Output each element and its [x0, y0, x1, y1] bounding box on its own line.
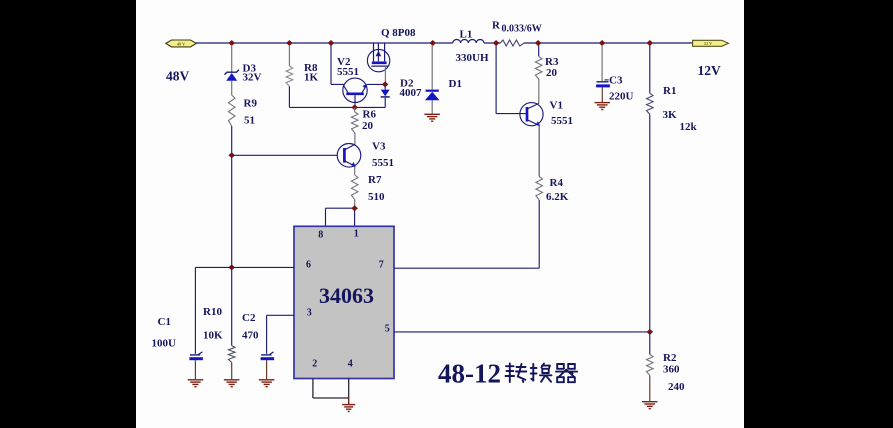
title glyph 换	[532, 364, 534, 381]
transistor V1 5551	[520, 103, 543, 126]
ground under pin4	[342, 404, 355, 406]
svg-text:C2: C2	[242, 312, 256, 324]
svg-text:1: 1	[354, 229, 359, 240]
resistor R9	[228, 95, 235, 126]
wire top rail R to 12V terminal	[524, 42, 693, 44]
wire V2 emitter to gate node	[367, 83, 386, 85]
svg-text:D1: D1	[449, 78, 462, 90]
node V3 base tap	[228, 152, 235, 158]
svg-text:C3: C3	[609, 75, 623, 87]
svg-text:1K: 1K	[304, 72, 319, 84]
svg-text:5551: 5551	[337, 66, 359, 78]
svg-text:12k: 12k	[680, 121, 698, 133]
wire rail to V2 collector	[330, 45, 332, 84]
wire R-R3 node down	[538, 45, 540, 56]
mosfet Q 8P08	[367, 49, 389, 71]
capacitor C1	[190, 354, 200, 356]
svg-text:R9: R9	[244, 98, 258, 110]
svg-text:20: 20	[546, 67, 558, 79]
svg-text:R1: R1	[663, 85, 676, 97]
svg-text:R4: R4	[550, 177, 564, 189]
svg-text:R10: R10	[203, 306, 222, 318]
node R8 branch	[286, 40, 293, 46]
svg-text:10K: 10K	[203, 330, 223, 342]
resistor R 0.033/6W	[500, 40, 524, 46]
svg-text:8: 8	[318, 230, 323, 241]
node mosfet gate / D2	[382, 81, 389, 87]
transistor V2 5551	[343, 78, 367, 102]
svg-text:12 V: 12 V	[704, 41, 712, 46]
svg-text:330UH: 330UH	[456, 52, 489, 64]
svg-text:7: 7	[379, 260, 384, 271]
wire R4 to pin7	[538, 200, 540, 268]
svg-text:3K: 3K	[663, 109, 678, 121]
svg-text:12V: 12V	[698, 63, 722, 78]
node L1-R / V1 base	[493, 40, 500, 46]
wire D3 to R9	[231, 81, 233, 95]
svg-text:48-12: 48-12	[438, 359, 501, 389]
wire pin5 to R2 node	[394, 331, 650, 333]
wire node to C1 corner	[195, 266, 231, 268]
transistor V3 5551	[337, 144, 361, 168]
wire rail to D3 anode	[231, 45, 233, 72]
wire R10 to ground	[231, 362, 233, 379]
svg-text:C1: C1	[158, 316, 171, 328]
capacitor C3	[597, 81, 609, 83]
wire R9 down to pin6 node	[231, 126, 233, 267]
resistor R6	[351, 112, 358, 133]
svg-text:4007: 4007	[400, 87, 423, 99]
wire D1 to ground	[431, 100, 433, 114]
svg-text:4: 4	[348, 359, 353, 370]
title glyph 转	[506, 365, 514, 367]
ground under R10	[224, 379, 240, 381]
resistor R1	[647, 93, 654, 114]
svg-text:V3: V3	[372, 141, 386, 153]
svg-text:5: 5	[385, 324, 390, 335]
wire C3 to ground	[601, 87, 603, 102]
resistor R7	[351, 175, 358, 200]
wire L1-R node to V1 base	[495, 45, 497, 114]
capacitor C2	[261, 354, 271, 356]
node R7 / pin1 / pin8	[351, 205, 358, 211]
ground under C2	[259, 379, 275, 381]
wire rail to D1	[431, 45, 433, 90]
wire R7 to pin1 node	[354, 200, 356, 209]
svg-text:32V: 32V	[243, 72, 262, 84]
wire R8 bottom to V2 emitter node	[288, 86, 290, 107]
svg-text:48V: 48V	[166, 69, 190, 84]
power terminal 48V flag	[166, 40, 197, 47]
wire top rail L1 to R sense resistor	[484, 42, 500, 44]
wire V3 emitter to R7	[354, 167, 356, 176]
node V2 base junction	[351, 104, 358, 110]
svg-text:2: 2	[312, 359, 317, 370]
wire R3 to V1 collector	[538, 79, 540, 103]
svg-text:100U: 100U	[152, 338, 177, 350]
wire R2 to ground	[649, 375, 651, 401]
node D1 branch	[429, 40, 436, 46]
wire V3 base	[232, 154, 338, 156]
power terminal 12V flag	[693, 40, 729, 46]
wire V1 emitter to R4	[538, 126, 540, 177]
IC U1 34063 body	[294, 226, 394, 378]
diode D1	[426, 90, 439, 92]
svg-text:Q 8P08: Q 8P08	[381, 27, 416, 39]
svg-text:L1: L1	[460, 29, 473, 41]
white schematic canvas	[136, 0, 744, 428]
svg-text:R: R	[492, 20, 501, 32]
node R-R3	[535, 40, 542, 46]
svg-text:5551: 5551	[551, 115, 573, 127]
resistor R2	[647, 354, 654, 375]
svg-text:5551: 5551	[372, 157, 394, 169]
svg-text:R7: R7	[368, 174, 382, 186]
svg-text:R6: R6	[363, 109, 377, 121]
wire rail to C3	[601, 45, 603, 81]
wire rail to R1	[649, 45, 651, 93]
wire pin2-pin4 tie	[312, 379, 314, 399]
ground under C1	[188, 379, 204, 381]
wire node to R2	[649, 332, 651, 355]
resistor R10	[228, 346, 235, 363]
svg-text:20: 20	[362, 120, 374, 132]
wire pin3 to C2	[267, 314, 294, 316]
diode D2	[384, 84, 386, 89]
wire pin4 ground stem	[348, 398, 350, 404]
node C3 branch	[599, 40, 606, 46]
resistor R4	[536, 177, 543, 201]
svg-text:470: 470	[242, 330, 259, 342]
wire R6 to V3 collector	[354, 133, 356, 145]
wire C2 to ground	[266, 360, 268, 379]
title glyph 器	[557, 363, 564, 365]
ground under C3	[595, 102, 611, 104]
node V2 collector branch	[328, 40, 335, 46]
svg-text:3: 3	[307, 308, 312, 319]
wire R1 to R2 node	[649, 114, 651, 332]
svg-text:48 V: 48 V	[177, 41, 185, 46]
svg-text:510: 510	[368, 191, 385, 203]
svg-text:34063: 34063	[319, 283, 374, 308]
svg-text:V1: V1	[550, 100, 563, 112]
wire pin6 to left branch	[232, 266, 294, 268]
node pin5 / R1 / R2	[647, 329, 654, 335]
node R1 branch / 12V	[647, 40, 654, 46]
svg-text:0.033/6W: 0.033/6W	[502, 24, 542, 35]
ground under R2	[642, 401, 658, 403]
zener diode D3	[226, 73, 237, 81]
svg-text:360: 360	[663, 364, 680, 376]
svg-text:R2: R2	[663, 352, 677, 364]
svg-text:51: 51	[244, 115, 255, 127]
svg-text:220U: 220U	[609, 91, 634, 103]
wire pin8-pin1 tie	[326, 207, 355, 209]
resistor R3	[535, 56, 542, 79]
ground under D1	[424, 113, 440, 115]
inductor L1	[453, 40, 484, 43]
wire top rail from 48V terminal to L1	[196, 42, 453, 44]
node 48V rail / D3 branch	[228, 40, 235, 46]
svg-text:6: 6	[306, 260, 311, 271]
wire C1 to ground	[194, 360, 196, 379]
wire rail to R8	[288, 45, 290, 66]
resistor R8	[286, 66, 293, 86]
svg-text:240: 240	[668, 381, 685, 393]
wire node to R10	[231, 267, 233, 345]
svg-text:6.2K: 6.2K	[546, 191, 569, 203]
node pin6 / C1 / R10	[228, 264, 235, 270]
